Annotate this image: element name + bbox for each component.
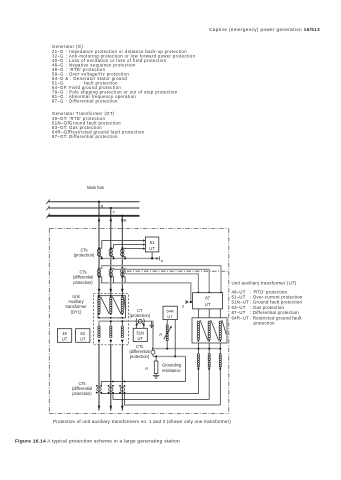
svg-text:protection): protection) <box>72 391 92 396</box>
node REF tap <box>152 348 154 350</box>
svg-text:64R: 64R <box>166 308 173 313</box>
node resistor tap <box>155 355 157 357</box>
ground under resistor <box>153 374 160 376</box>
node REF d3 <box>219 348 221 350</box>
wire neutral stub B <box>121 321 123 326</box>
bus R break slash <box>46 200 50 204</box>
node primary R top <box>98 295 100 297</box>
CT bottom Y <box>109 387 113 391</box>
svg-text:49: 49 <box>62 331 67 336</box>
wire phase R drop <box>98 202 100 296</box>
CT row2 phase B <box>121 269 124 276</box>
arrow phase Y into transformer <box>109 289 112 293</box>
svg-text:protection): protection) <box>130 354 150 359</box>
wire 64R left pin lower <box>166 341 168 348</box>
node jog B on return <box>124 257 126 259</box>
UT primary coil R <box>98 297 100 313</box>
wire 87UT stub 2 <box>208 309 210 318</box>
wire CT1B bottom jog <box>122 257 125 259</box>
CT 51N on neutral <box>136 318 144 324</box>
UT primary coil B <box>121 297 123 313</box>
UT secondary neutral bus <box>99 321 153 326</box>
node delta2 bottom <box>208 340 210 342</box>
svg-text:(protection): (protection) <box>129 313 150 318</box>
node primary R bottom <box>98 313 100 315</box>
wire L1 <box>101 382 185 386</box>
wire L2 <box>101 393 198 394</box>
UT secondary coil B <box>121 326 123 338</box>
arrow phase Y down <box>109 220 112 224</box>
node 87UT pin2 <box>208 292 210 294</box>
node 51N CT lead R <box>143 324 145 326</box>
svg-text:UT: UT <box>167 314 173 319</box>
wire neutral below CT <box>152 354 154 356</box>
wire CT1Y to 51UT <box>111 245 144 249</box>
node lead2 bottom <box>208 368 210 370</box>
UT secondary coil Y <box>110 326 112 338</box>
CT wavy lead 2 <box>208 354 210 368</box>
svg-text:63: 63 <box>80 331 85 336</box>
CT wavy lead 3 <box>219 354 221 368</box>
node CT1R top <box>98 247 100 249</box>
CT bottom B <box>120 387 124 391</box>
UT secondary coil R <box>98 326 100 338</box>
bus R <box>48 201 140 203</box>
svg-text:UT: UT <box>205 302 211 307</box>
wire CT1R bottom jog <box>99 257 102 259</box>
svg-text:B: B <box>124 217 127 222</box>
UT primary winding box <box>98 296 126 318</box>
wire CT2Y to 87UT (mid) <box>111 268 209 292</box>
wire CT2R bottom jog <box>99 277 102 283</box>
CT bottom R <box>97 387 101 391</box>
svg-text:UT: UT <box>80 337 86 342</box>
arrow LV B <box>121 340 124 344</box>
svg-text:transformer: transformer <box>66 304 88 309</box>
arrow bottom R <box>98 406 101 410</box>
node CT1B top <box>121 247 123 249</box>
node neutral Y <box>110 320 112 322</box>
wire CT1Y bottom jog <box>111 257 114 259</box>
svg-text:87–GT: 87–GT <box>52 134 67 139</box>
wire CT2B bottom jog <box>122 277 125 283</box>
node CT2R bottom <box>98 276 100 278</box>
LV delta diagonal 2 <box>211 320 219 341</box>
wire phase Y drop <box>110 208 112 296</box>
bus Y <box>48 207 140 209</box>
node CT2R top <box>98 267 100 269</box>
node REF 64R <box>166 348 168 350</box>
grounding resistor R <box>155 356 157 361</box>
UT LV delta winding box <box>192 318 227 343</box>
wire delta lead 2 <box>208 343 210 353</box>
wire 87UT stub 1 <box>197 309 199 318</box>
wire phase B LV drop <box>121 344 123 411</box>
CT row1 phase Y <box>109 249 112 256</box>
LV delta diagonal 3 <box>222 320 226 334</box>
node CT2Y bottom <box>110 276 112 278</box>
node CT2B bottom <box>121 276 123 278</box>
relay 64R-UT <box>163 306 177 319</box>
zone border (dash-dot) <box>49 229 229 414</box>
arrow into 51UT pin3 <box>143 247 145 250</box>
wire lead1 to L2 <box>197 366 199 393</box>
node delta3 bottom <box>219 340 221 342</box>
svg-text:R: R <box>145 366 148 371</box>
node Y tap <box>110 207 112 209</box>
wire delta lead 3 <box>219 343 221 353</box>
wire 51N CT leads <box>137 323 144 329</box>
earth stub on neutral <box>151 321 153 325</box>
bus B break slash <box>46 213 50 218</box>
arrow bottom Y <box>109 406 112 410</box>
arrow LV R <box>98 340 101 344</box>
terminal b at 87UT left <box>190 301 192 303</box>
wire 64R left pin <box>166 320 168 325</box>
arrow phase B into transformer <box>121 289 124 293</box>
arrow LV Y <box>109 340 112 344</box>
svg-text:resistance: resistance <box>162 368 181 373</box>
svg-text:UT: UT <box>149 246 155 251</box>
node 51N CT lead L <box>136 324 138 326</box>
wire phase B drop <box>121 216 123 296</box>
wire 64R return line <box>153 355 185 357</box>
wire 51UT bottom stub <box>151 252 153 259</box>
UT primary coil Y <box>110 297 112 313</box>
svg-text:Figure 16.14 A typical prote: Figure 16.14 A typical protection scheme… <box>15 439 180 445</box>
wire CT2Y bottom jog <box>111 277 114 283</box>
CT row1 phase B <box>121 249 124 256</box>
zone line GT (dash-dot) <box>127 270 229 272</box>
node lead1 bottom <box>197 368 199 370</box>
node B tap <box>121 215 123 217</box>
svg-text:Captive (emergency) power gene: Captive (emergency) power generation 16/… <box>209 27 320 32</box>
arrow phase R into transformer <box>98 289 101 293</box>
node 87UT pin1 <box>220 292 222 294</box>
wire CT1 common return <box>100 257 157 259</box>
arrow into 51UT pin1 <box>143 239 145 242</box>
svg-text:Main bus: Main bus <box>87 185 104 190</box>
svg-text:87: 87 <box>205 296 210 301</box>
UT primary delta diagonal 1 <box>101 297 110 314</box>
svg-text:R: R <box>101 203 104 208</box>
node primary Y top <box>110 295 112 297</box>
svg-text:64R–UT: 64R–UT <box>232 315 250 320</box>
LV delta coil 1 <box>197 321 199 340</box>
svg-text:: Differential protection: : Differential protection <box>66 134 118 139</box>
node primary B top <box>121 295 123 297</box>
wire CT1B to 51UT <box>122 247 144 249</box>
arrow into 51UT pin2 <box>143 243 145 246</box>
svg-text:Y: Y <box>112 210 115 215</box>
node 51UT stub joint <box>151 257 153 259</box>
svg-text:protection): protection) <box>73 280 93 285</box>
wire CT2 common to 87UT left <box>101 283 191 302</box>
stabilising resistor R wavy <box>166 325 168 341</box>
CT row2 phase Y <box>109 269 112 276</box>
wire neutral descent <box>152 321 154 350</box>
wire grounding loop right edge <box>184 356 186 381</box>
svg-text:UT: UT <box>137 336 143 341</box>
wire L3 <box>113 393 209 400</box>
node primary Y bottom <box>110 313 112 315</box>
svg-text:87–G: 87–G <box>52 99 64 104</box>
UT primary delta diagonal 3 <box>124 297 126 310</box>
node CT2B top <box>121 267 123 269</box>
svg-text:UT: UT <box>62 337 68 342</box>
CT row2 phase R <box>97 269 100 276</box>
relay 49-UT <box>57 329 71 343</box>
wire lead3 to L4 <box>219 366 221 405</box>
node delta1 bottom <box>198 340 200 342</box>
node jog Y on return <box>113 257 115 259</box>
nodes CT bottom Y <box>108 385 114 394</box>
legend Generator (G) <box>52 44 196 104</box>
svg-text:Protection of unit auxiliary t: Protection of unit auxiliary transformer… <box>53 419 231 424</box>
svg-text:: Differential protection: : Differential protection <box>66 99 118 104</box>
CT wavy lead 1 <box>197 354 199 368</box>
node primary B bottom <box>121 313 123 315</box>
wire phase R LV drop <box>98 344 100 411</box>
wire delta lead 1 <box>197 343 199 353</box>
node R tap <box>98 201 100 203</box>
node CT2Y top <box>110 267 112 269</box>
node REF d1 <box>197 348 199 350</box>
svg-text:51: 51 <box>150 240 155 245</box>
node neutral B <box>121 320 123 322</box>
bus B <box>48 215 140 217</box>
wire lead2 to L3 <box>208 366 210 399</box>
wire 64R right pin <box>174 320 176 357</box>
wire 87UT stub 3 <box>219 309 221 318</box>
svg-text:51N: 51N <box>136 330 144 335</box>
relay 51-UT <box>145 237 158 252</box>
LV delta diagonal 1 <box>200 320 208 341</box>
UT primary delta diagonal 2 <box>112 297 121 314</box>
svg-text:(DY1): (DY1) <box>71 310 82 315</box>
relay 87-UT <box>193 293 223 309</box>
wire phase Y LV drop <box>110 344 112 411</box>
relay 63-UT <box>76 329 90 343</box>
arrow across stabilising resistor <box>164 327 171 339</box>
svg-text:(protection): (protection) <box>74 253 95 258</box>
svg-text:R: R <box>159 332 162 337</box>
node CT1Y top <box>110 247 112 249</box>
terminal a <box>156 257 158 260</box>
LV delta coil 2 <box>208 321 210 340</box>
wire neutral stub Y <box>110 321 112 326</box>
arrow phase R down <box>98 220 101 224</box>
wire CT2B to 87UT (inner) <box>122 268 198 292</box>
CT row1 phase R <box>97 249 100 256</box>
arrow bottom B <box>121 406 124 410</box>
wire CT2R to 87UT (outer) <box>99 266 221 293</box>
node lead3 bottom <box>219 368 221 370</box>
node 64R right return <box>174 355 176 357</box>
transformer UT dashed zone box <box>93 294 128 345</box>
legend Unit auxiliary transformer (UT) <box>232 281 303 326</box>
relay 51N-UT <box>133 328 147 341</box>
svg-text:protection: protection <box>254 321 276 326</box>
nodes CT bottom R <box>96 385 102 394</box>
bus Y break slash <box>46 206 50 210</box>
nodes CT bottom B <box>119 385 125 394</box>
svg-text:Unit auxiliary transformer (UT: Unit auxiliary transformer (UT) <box>232 281 297 286</box>
LV delta coil 3 <box>219 321 221 340</box>
node REF d2 <box>208 348 210 350</box>
wire L4 <box>125 393 221 405</box>
legend Generator Transformer (GT) <box>52 111 145 139</box>
wire REF line <box>153 348 220 350</box>
CT 64R neutral <box>151 350 155 354</box>
node jog R on return <box>101 257 103 259</box>
arrow phase B down <box>121 220 124 224</box>
node 87UT pin3 <box>197 292 199 294</box>
wire CT1R to 51UT <box>99 241 144 249</box>
